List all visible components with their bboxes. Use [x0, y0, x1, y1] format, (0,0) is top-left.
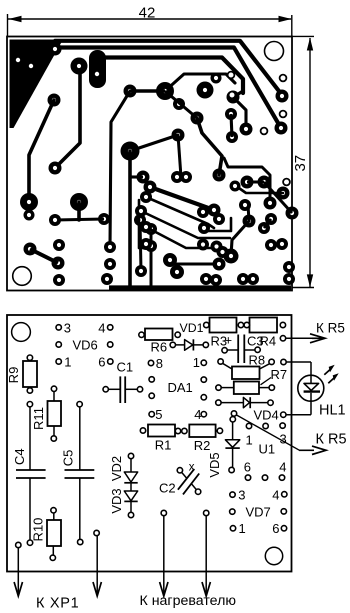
svg-text:6: 6 — [272, 521, 279, 536]
svg-text:R1: R1 — [155, 438, 172, 453]
svg-text:1: 1 — [193, 355, 200, 370]
svg-text:4: 4 — [194, 407, 201, 422]
svg-text:x: x — [189, 462, 195, 474]
svg-text:4: 4 — [98, 320, 105, 335]
svg-text:1: 1 — [64, 354, 71, 369]
svg-text:C1: C1 — [117, 360, 134, 375]
svg-text:R10: R10 — [30, 518, 45, 542]
svg-text:VD5: VD5 — [207, 452, 222, 477]
svg-text:4: 4 — [279, 459, 286, 474]
svg-text:R7: R7 — [271, 367, 288, 382]
svg-text:1: 1 — [246, 432, 253, 447]
svg-text:6: 6 — [98, 354, 105, 369]
svg-text:R6: R6 — [151, 339, 168, 354]
svg-text:R4: R4 — [260, 334, 277, 349]
svg-text:6: 6 — [244, 459, 251, 474]
svg-text:К нагревателю: К нагревателю — [140, 593, 237, 609]
svg-text:VD1: VD1 — [180, 321, 204, 335]
svg-text:К ХР1: К ХР1 — [36, 596, 79, 612]
svg-text:R11: R11 — [31, 407, 46, 430]
svg-text:4: 4 — [272, 487, 279, 502]
svg-text:8: 8 — [156, 356, 163, 371]
svg-text:К R5: К R5 — [316, 432, 347, 448]
svg-text:К R5: К R5 — [316, 320, 345, 335]
svg-text:R9: R9 — [6, 367, 21, 384]
svg-text:VD6: VD6 — [73, 337, 98, 352]
svg-text:5: 5 — [155, 407, 162, 422]
svg-text:C2: C2 — [159, 480, 176, 495]
svg-text:37: 37 — [292, 155, 309, 172]
svg-text:1: 1 — [239, 521, 246, 536]
svg-text:U1: U1 — [259, 441, 276, 456]
svg-text:R2: R2 — [194, 438, 211, 453]
svg-text:R8: R8 — [249, 353, 266, 368]
svg-text:HL1: HL1 — [319, 402, 346, 418]
svg-text:C4: C4 — [12, 448, 27, 465]
svg-text:C5: C5 — [60, 450, 75, 467]
svg-text:3: 3 — [64, 320, 71, 335]
svg-text:42: 42 — [139, 5, 156, 22]
svg-text:DA1: DA1 — [168, 380, 193, 395]
svg-text:3: 3 — [238, 488, 245, 503]
svg-text:3: 3 — [280, 432, 287, 447]
svg-text:VD4: VD4 — [254, 407, 279, 422]
svg-text:VD7: VD7 — [246, 504, 271, 519]
svg-text:+: + — [225, 333, 233, 348]
svg-text:VD2: VD2 — [109, 456, 124, 481]
svg-text:VD3: VD3 — [109, 488, 124, 513]
